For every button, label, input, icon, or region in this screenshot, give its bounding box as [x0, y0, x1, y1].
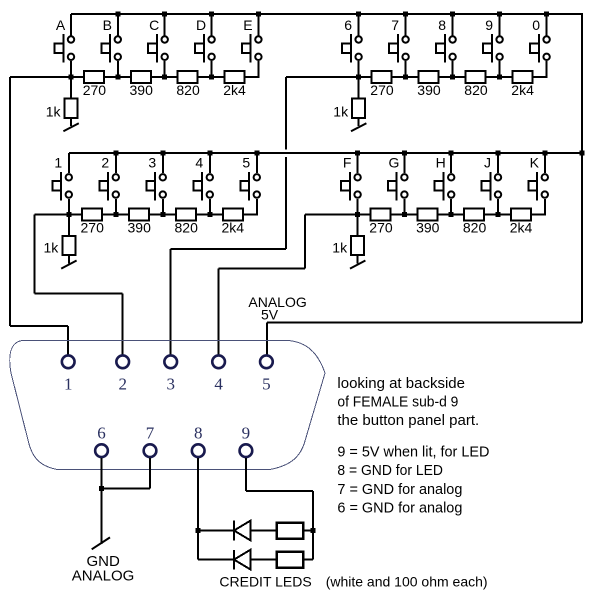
svg-text:8: 8	[194, 424, 203, 443]
svg-text:D: D	[196, 17, 206, 33]
svg-text:1: 1	[64, 374, 73, 393]
svg-text:1k: 1k	[44, 240, 60, 256]
svg-text:3: 3	[148, 155, 156, 171]
svg-text:820: 820	[463, 220, 487, 236]
svg-text:270: 270	[370, 82, 394, 98]
svg-text:A: A	[56, 17, 66, 33]
svg-text:5: 5	[242, 155, 250, 171]
svg-text:G: G	[388, 155, 399, 171]
svg-text:B: B	[103, 17, 112, 33]
svg-text:F: F	[343, 155, 352, 171]
svg-text:270: 270	[81, 220, 105, 236]
svg-text:2k4: 2k4	[511, 82, 534, 98]
svg-text:7 = GND for analog: 7 = GND for analog	[337, 481, 462, 498]
svg-text:ANALOG: ANALOG	[72, 567, 135, 584]
svg-text:2: 2	[101, 155, 109, 171]
svg-text:E: E	[243, 17, 252, 33]
svg-text:looking at backside: looking at backside	[337, 375, 465, 392]
svg-text:390: 390	[416, 220, 440, 236]
svg-text:390: 390	[128, 220, 152, 236]
svg-text:2k4: 2k4	[222, 220, 245, 236]
svg-text:CREDIT LEDS: CREDIT LEDS	[219, 573, 311, 589]
svg-text:2k4: 2k4	[510, 220, 533, 236]
svg-text:1k: 1k	[46, 104, 62, 120]
svg-text:1: 1	[54, 155, 62, 171]
svg-text:270: 270	[83, 82, 107, 98]
svg-text:9 = 5V when lit, for LED: 9 = 5V when lit, for LED	[337, 444, 489, 461]
svg-text:9: 9	[485, 17, 493, 33]
svg-text:7: 7	[391, 17, 399, 33]
svg-text:5: 5	[262, 374, 271, 393]
svg-text:390: 390	[417, 82, 441, 98]
svg-text:820: 820	[176, 82, 200, 98]
svg-text:9: 9	[242, 424, 251, 443]
svg-text:820: 820	[464, 82, 488, 98]
svg-text:K: K	[530, 155, 540, 171]
svg-text:H: H	[436, 155, 446, 171]
svg-text:1k: 1k	[332, 240, 348, 256]
svg-text:270: 270	[369, 220, 393, 236]
svg-text:2: 2	[118, 374, 127, 393]
svg-text:5V: 5V	[261, 307, 279, 323]
svg-text:8: 8	[438, 17, 446, 33]
svg-text:(white and 100 ohm each): (white and 100 ohm each)	[326, 573, 488, 589]
svg-text:C: C	[149, 17, 159, 33]
svg-text:0: 0	[532, 17, 540, 33]
svg-text:3: 3	[166, 374, 175, 393]
svg-text:390: 390	[130, 82, 154, 98]
svg-text:4: 4	[195, 155, 203, 171]
svg-text:1k: 1k	[333, 104, 349, 120]
svg-text:8 = GND for LED: 8 = GND for LED	[337, 462, 443, 479]
svg-text:the button panel part.: the button panel part.	[337, 412, 479, 429]
svg-text:6: 6	[97, 424, 106, 443]
svg-text:820: 820	[175, 220, 199, 236]
svg-text:7: 7	[146, 424, 155, 443]
svg-text:J: J	[484, 155, 491, 171]
svg-text:of FEMALE sub-d 9: of FEMALE sub-d 9	[337, 393, 458, 410]
svg-text:6 = GND for analog: 6 = GND for analog	[337, 499, 462, 516]
svg-text:6: 6	[344, 17, 352, 33]
svg-text:2k4: 2k4	[223, 82, 246, 98]
svg-text:4: 4	[214, 374, 223, 393]
